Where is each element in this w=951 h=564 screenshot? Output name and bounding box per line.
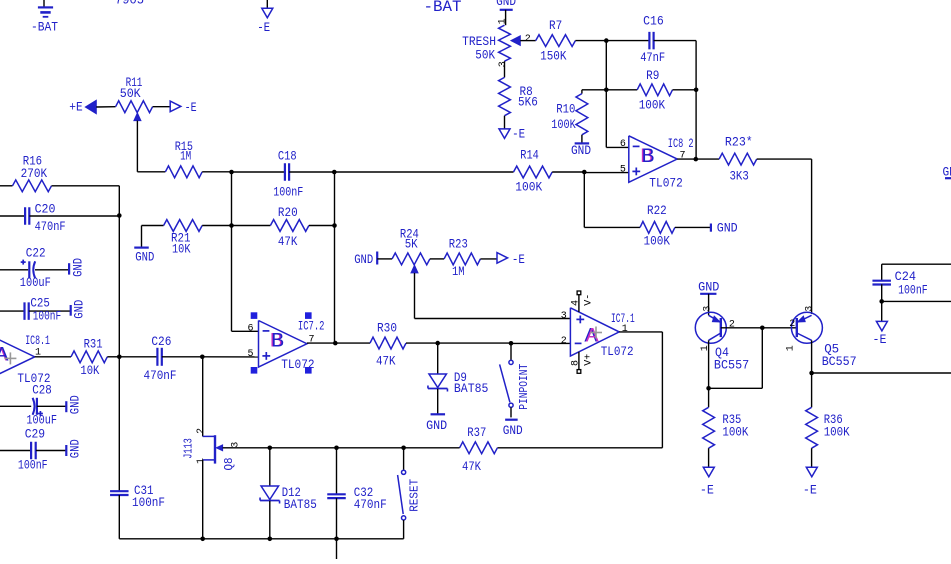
svg-text:8: 8 xyxy=(571,360,582,366)
ground GND right of C29 xyxy=(66,439,82,458)
svg-text:RESET: RESET xyxy=(407,479,421,512)
svg-text:7: 7 xyxy=(680,151,686,162)
svg-text:2: 2 xyxy=(789,319,795,330)
svg-text:C20: C20 xyxy=(35,202,56,217)
svg-text:10K: 10K xyxy=(80,363,99,378)
svg-text:J113: J113 xyxy=(181,438,195,459)
svg-text:50K: 50K xyxy=(475,47,495,62)
capacitor C31 100nF xyxy=(110,483,165,539)
svg-text:7: 7 xyxy=(309,335,315,346)
svg-text:47K: 47K xyxy=(376,354,396,369)
svg-text:2: 2 xyxy=(561,336,567,347)
svg-text:47nF: 47nF xyxy=(640,50,665,65)
svg-text:100nF: 100nF xyxy=(33,309,62,324)
node IC8.2 output junction xyxy=(677,157,719,162)
svg-text:3K3: 3K3 xyxy=(730,168,749,183)
resistor R20 47K xyxy=(229,205,337,249)
capacitor C22 100uF xyxy=(0,245,69,290)
svg-text:-E: -E xyxy=(803,483,817,498)
resistor R9 100K xyxy=(604,68,698,112)
svg-text:4: 4 xyxy=(571,300,582,306)
power +E arrow xyxy=(69,99,115,114)
svg-text:3: 3 xyxy=(498,61,509,67)
svg-text:7905: 7905 xyxy=(115,0,144,8)
op-amp IC8.2 TL072 xyxy=(584,136,693,191)
svg-text:R9: R9 xyxy=(646,68,659,83)
resistor R22 100K xyxy=(584,203,711,248)
resistor R35 100K xyxy=(703,388,749,467)
svg-text:1M: 1M xyxy=(452,264,465,279)
svg-text:-E: -E xyxy=(257,20,270,35)
svg-text:TL072: TL072 xyxy=(649,175,683,190)
node Q4 base junction xyxy=(760,326,797,331)
svg-text:1: 1 xyxy=(700,345,711,351)
svg-text:IC8.1: IC8.1 xyxy=(25,333,50,348)
svg-text:B: B xyxy=(642,145,655,167)
resistor R16 270K xyxy=(0,154,119,192)
svg-text:5: 5 xyxy=(620,164,626,175)
wire R24 wiper to IC7.1 pin3 xyxy=(415,318,571,320)
svg-text:IC7.2: IC7.2 xyxy=(298,318,325,333)
power symbol -E below R35 xyxy=(700,467,714,497)
svg-text:BC557: BC557 xyxy=(822,354,857,369)
ground -BAT (top left) xyxy=(31,0,58,35)
svg-text:1M: 1M xyxy=(180,148,191,163)
switch PINPOINT xyxy=(500,343,531,417)
svg-text:-E: -E xyxy=(512,252,525,267)
svg-text:10K: 10K xyxy=(172,241,191,256)
svg-text:TL072: TL072 xyxy=(601,344,634,359)
svg-text:3: 3 xyxy=(230,442,241,448)
ground GND right of C22 xyxy=(69,258,85,277)
node Q8 rail junctions xyxy=(268,446,406,451)
svg-text:R7: R7 xyxy=(549,18,562,33)
ground GND below PINPOINT xyxy=(503,420,523,438)
wire to IC7.1 pin2 xyxy=(511,342,570,344)
svg-text:GND: GND xyxy=(717,221,738,236)
svg-text:Q8: Q8 xyxy=(222,458,236,471)
svg-text:R20: R20 xyxy=(278,205,298,220)
svg-text:100K: 100K xyxy=(515,180,542,195)
svg-text:47K: 47K xyxy=(278,234,298,249)
svg-text:-BAT: -BAT xyxy=(424,0,462,16)
svg-text:150K: 150K xyxy=(540,49,567,64)
svg-text:PINPOINT: PINPOINT xyxy=(517,364,531,410)
svg-text:470nF: 470nF xyxy=(354,497,387,512)
resistor R7 150K xyxy=(536,18,607,64)
svg-text:5K6: 5K6 xyxy=(518,94,538,109)
power symbol -E below C24 xyxy=(873,321,888,347)
svg-text:R37: R37 xyxy=(467,425,486,440)
resistor R36 100K xyxy=(806,373,850,467)
node R7/C16 junction xyxy=(604,38,609,43)
diode D12 BAT85 xyxy=(260,448,317,539)
node PINPOINT junction xyxy=(509,341,514,346)
power symbol -E (top) xyxy=(257,0,273,35)
resistor R23 1M xyxy=(430,236,497,279)
svg-text:V+: V+ xyxy=(584,354,595,366)
svg-text:5: 5 xyxy=(248,349,254,360)
svg-text:1: 1 xyxy=(196,458,207,464)
svg-text:3: 3 xyxy=(703,306,714,312)
capacitor C26 470nF xyxy=(119,334,258,383)
resistor R37 47K xyxy=(404,425,498,474)
svg-text:GND: GND xyxy=(503,423,523,438)
svg-text:R23: R23 xyxy=(449,236,468,251)
potentiometer TRESH 50K xyxy=(462,25,536,62)
ground GND below D9 xyxy=(426,414,447,433)
wire C16 right vertical xyxy=(695,41,697,160)
svg-text:-BAT: -BAT xyxy=(31,20,58,35)
capacitor C20 470nF xyxy=(0,202,122,234)
svg-text:R30: R30 xyxy=(377,321,397,336)
ground GND below R10 xyxy=(571,143,591,158)
svg-text:C18: C18 xyxy=(278,149,297,164)
svg-text:1: 1 xyxy=(622,324,628,335)
svg-text:100K: 100K xyxy=(722,425,748,440)
wire D9 to pinpoint node xyxy=(438,342,511,344)
svg-text:100nF: 100nF xyxy=(273,185,303,200)
svg-text:B: B xyxy=(271,330,284,352)
svg-text:100nF: 100nF xyxy=(18,457,48,472)
svg-text:R23*: R23* xyxy=(725,135,753,150)
svg-text:470nF: 470nF xyxy=(35,219,66,234)
label 7905 (clipped regulator text) xyxy=(115,0,144,8)
capacitor C28 100uF xyxy=(0,383,66,428)
svg-text:BAT85: BAT85 xyxy=(454,381,489,396)
svg-text:5K: 5K xyxy=(405,236,418,251)
resistor R8 5K6 xyxy=(498,61,538,129)
power symbol -E right of R11 xyxy=(153,100,197,115)
svg-text:-E: -E xyxy=(185,100,197,115)
svg-text:470nF: 470nF xyxy=(144,368,177,383)
wire C18 right vertical xyxy=(334,172,336,343)
potentiometer R24 5K xyxy=(392,227,430,319)
wire R16 vertical bus xyxy=(118,186,120,492)
op-amp IC7.1 TL072 xyxy=(561,308,635,359)
svg-text:100nF: 100nF xyxy=(132,495,165,510)
resistor R30 47K xyxy=(335,321,437,369)
resistor R10 100K xyxy=(551,90,606,144)
op-amp IC7.2 TL072 (selected) xyxy=(232,312,325,373)
wire C18 left vertical xyxy=(231,172,233,331)
svg-text:GND: GND xyxy=(354,252,373,267)
pin 8 V+ terminal of IC7.1 xyxy=(571,352,595,374)
svg-text:GND: GND xyxy=(68,395,83,414)
node R15/C18 junction xyxy=(229,170,234,175)
svg-text:R22: R22 xyxy=(647,203,667,218)
wire R23 to Q5 vertical xyxy=(811,159,813,314)
ground GND right of C25 xyxy=(71,300,87,319)
svg-text:GND: GND xyxy=(70,258,85,277)
capacitor C16 47nF xyxy=(606,14,696,66)
pin 4 V- terminal of IC7.1 xyxy=(571,291,595,312)
svg-text:V-: V- xyxy=(584,294,595,306)
transistor Q8 J113 xyxy=(181,357,269,539)
svg-text:-E: -E xyxy=(700,483,714,498)
svg-text:GND: GND xyxy=(135,250,154,265)
svg-text:+E: +E xyxy=(69,99,83,114)
capacitor C18 100nF xyxy=(232,149,337,200)
svg-text:100nF: 100nF xyxy=(898,283,928,298)
svg-text:3: 3 xyxy=(805,306,816,312)
svg-text:C28: C28 xyxy=(32,383,52,398)
ground GND above TRESH xyxy=(496,0,516,25)
svg-text:A: A xyxy=(0,344,9,366)
transistor Q5 BC557 xyxy=(785,306,856,373)
svg-text:BC557: BC557 xyxy=(714,357,749,372)
svg-text:C16: C16 xyxy=(643,14,664,29)
svg-text:GND: GND xyxy=(68,439,83,458)
svg-text:C29: C29 xyxy=(25,427,45,442)
svg-text:6: 6 xyxy=(620,139,626,150)
svg-text:R10: R10 xyxy=(556,102,575,117)
svg-text:100K: 100K xyxy=(824,425,850,440)
svg-text:50K: 50K xyxy=(120,86,141,101)
ground GND fragment at right edge xyxy=(943,165,951,180)
svg-text:GND: GND xyxy=(698,280,719,295)
svg-text:-E: -E xyxy=(512,127,525,142)
svg-text:C22: C22 xyxy=(26,245,46,260)
capacitor C29 100nF xyxy=(0,427,66,473)
svg-text:R14: R14 xyxy=(520,148,539,163)
diode D9 BAT85 xyxy=(428,343,488,414)
svg-text:IC8 2: IC8 2 xyxy=(668,136,694,151)
resistor R23* 3K3 xyxy=(719,135,812,184)
ground GND left of R24 xyxy=(354,252,392,268)
svg-text:R31: R31 xyxy=(84,336,103,351)
svg-text:2: 2 xyxy=(196,428,207,434)
potentiometer R11 50K xyxy=(116,75,153,172)
svg-text:-E: -E xyxy=(873,332,887,347)
ground GND right of C28 xyxy=(66,395,82,414)
ground GND above Q4 xyxy=(698,280,719,316)
node IC7.2 output junction xyxy=(307,341,338,346)
power symbol -E right of R23 xyxy=(497,252,525,267)
svg-text:GND: GND xyxy=(426,418,447,433)
svg-text:100K: 100K xyxy=(551,117,576,132)
svg-text:BAT85: BAT85 xyxy=(284,497,317,512)
svg-text:3: 3 xyxy=(561,311,567,322)
svg-text:100uF: 100uF xyxy=(20,275,51,290)
power symbol -E below R36 xyxy=(803,467,817,497)
node Q5 collector junction xyxy=(809,371,951,376)
svg-text:270K: 270K xyxy=(21,166,48,181)
resistor R15 1M xyxy=(137,139,231,178)
resistor R14 100K xyxy=(335,148,586,195)
wire R14 node down to R22 xyxy=(583,172,585,227)
svg-text:1: 1 xyxy=(498,18,509,24)
svg-text:1: 1 xyxy=(785,345,796,351)
wire bottom rail xyxy=(119,537,403,560)
capacitor C24 100nF xyxy=(872,264,951,321)
wire R7 node vertical xyxy=(605,41,607,148)
svg-text:C26: C26 xyxy=(151,334,171,349)
power symbol -E below R8 xyxy=(499,127,525,142)
ground GND below R21 xyxy=(134,248,154,265)
svg-text:47K: 47K xyxy=(462,459,481,474)
capacitor C32 470nF xyxy=(327,448,386,539)
svg-text:100K: 100K xyxy=(644,233,671,248)
svg-text:GND: GND xyxy=(571,143,591,158)
svg-text:6: 6 xyxy=(248,324,254,335)
svg-text:100K: 100K xyxy=(639,97,666,112)
svg-text:GND: GND xyxy=(71,300,86,319)
op-amp IC8.1 TL072 xyxy=(0,333,51,386)
label -BAT (top middle) xyxy=(424,0,462,16)
capacitor C25 100nF xyxy=(0,296,71,324)
svg-text:100uF: 100uF xyxy=(26,412,57,427)
transistor Q4 BC557 xyxy=(695,306,762,389)
wire Q4 emitter to base loop xyxy=(706,328,762,391)
svg-text:2: 2 xyxy=(729,320,735,331)
wire IC7.1 output loop xyxy=(497,332,662,448)
svg-text:2: 2 xyxy=(525,34,531,45)
svg-text:GND: GND xyxy=(496,0,516,9)
resistor R21 10K xyxy=(142,220,232,257)
switch RESET xyxy=(398,448,422,539)
ground GND right of R22 xyxy=(711,221,738,236)
node D9 junction xyxy=(435,341,440,346)
resistor R31 10K xyxy=(35,336,122,378)
